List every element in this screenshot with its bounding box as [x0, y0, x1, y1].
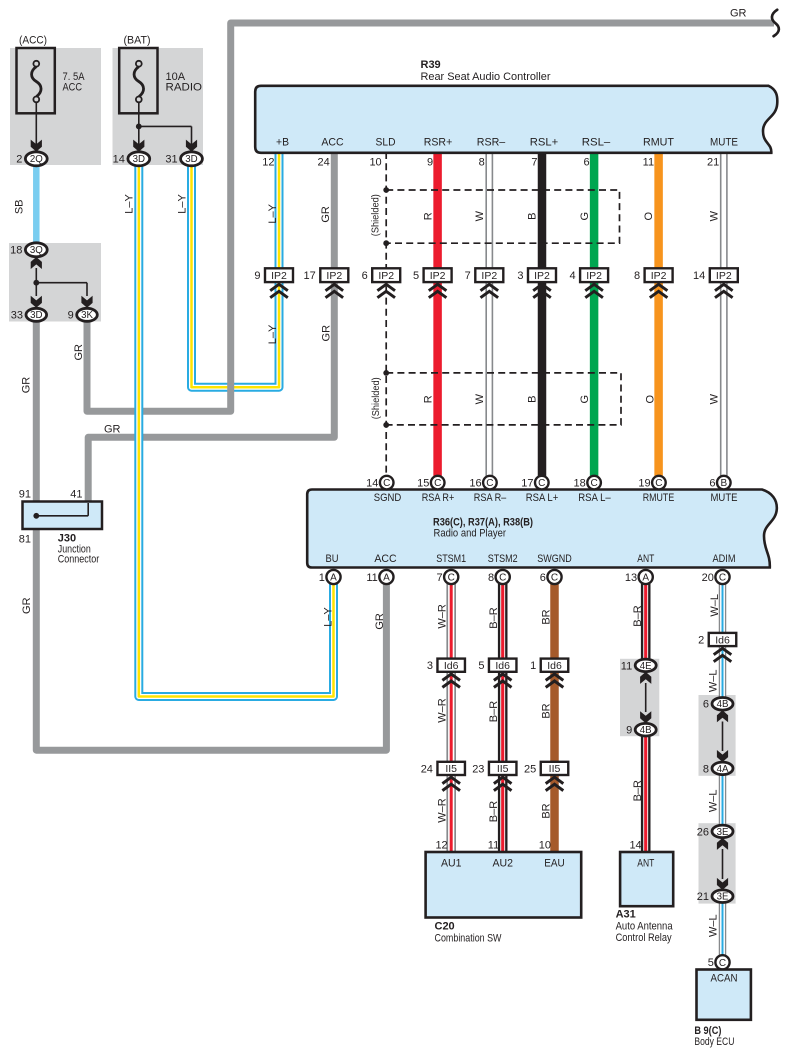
chevron II5 pin 23: [494, 777, 512, 790]
svg-text:C: C: [719, 958, 726, 969]
svg-text:AU2: AU2: [492, 858, 513, 870]
wire fuse ACC tail: [31, 102, 42, 151]
off-page break symbol: [772, 10, 779, 36]
chevron IP2 pin 17: [326, 284, 344, 297]
svg-text:W–L: W–L: [708, 789, 720, 812]
chevron IP2 pin 3: [533, 284, 551, 297]
svg-text:ANT: ANT: [637, 858, 654, 870]
connector block background 4B/4A: [699, 695, 736, 776]
svg-text:21: 21: [697, 891, 709, 903]
svg-text:II5: II5: [497, 763, 509, 775]
svg-text:6: 6: [362, 270, 368, 282]
svg-text:RSA R–: RSA R–: [474, 492, 507, 504]
svg-text:12: 12: [435, 840, 447, 852]
svg-text:STSM1: STSM1: [436, 553, 466, 565]
C20 pin labels: [441, 858, 565, 870]
svg-text:5: 5: [413, 270, 419, 282]
connector IP2 pin 5: [413, 268, 452, 282]
wire W-L ADIM to 4B: [719, 584, 727, 698]
svg-text:W: W: [474, 393, 486, 404]
svg-text:C: C: [590, 478, 597, 489]
connector 3D pin31: [165, 152, 202, 166]
svg-text:3: 3: [427, 660, 433, 672]
svg-text:A: A: [330, 573, 337, 584]
svg-text:RSA L+: RSA L+: [526, 492, 559, 504]
chevron IP2 pin 4: [585, 284, 603, 297]
svg-text:21: 21: [707, 157, 719, 169]
svg-text:C: C: [538, 478, 545, 489]
svg-text:14: 14: [366, 478, 378, 490]
radio bottom pin labels: [326, 553, 736, 565]
svg-text:RMUTE: RMUTE: [643, 492, 675, 504]
svg-text:14: 14: [693, 270, 705, 282]
svg-text:1: 1: [530, 660, 536, 672]
wire L-Y from fuse 3D pin31 to R39 +B: [192, 152, 280, 387]
svg-text:B: B: [527, 213, 539, 220]
wire W MUTE column: [720, 152, 728, 476]
radio pin 15 (C): [417, 476, 444, 490]
svg-text:3D: 3D: [30, 310, 42, 321]
svg-text:6: 6: [583, 157, 589, 169]
wire L-Y from fuse 3D pin14 to radio BU: [139, 166, 334, 697]
wire G RSL- column: [590, 152, 599, 476]
connector block background 3E/3E: [699, 823, 736, 903]
svg-text:A: A: [642, 573, 649, 584]
svg-text:R: R: [423, 395, 435, 403]
IC B9 Body ECU: [697, 970, 751, 1020]
svg-text:11: 11: [643, 157, 654, 169]
radio pin 6 (C) bottom: [540, 570, 562, 584]
svg-text:GR: GR: [104, 423, 121, 435]
svg-text:Rear Seat Audio Controller: Rear Seat Audio Controller: [421, 71, 551, 83]
svg-text:RMUT: RMUT: [643, 137, 674, 149]
svg-text:81: 81: [19, 534, 31, 546]
svg-text:W: W: [708, 210, 720, 221]
svg-text:RSL+: RSL+: [530, 137, 559, 149]
svg-text:12: 12: [262, 157, 274, 169]
svg-text:5: 5: [708, 957, 714, 969]
svg-text:RSR+: RSR+: [424, 137, 453, 149]
svg-text:Id6: Id6: [547, 660, 562, 672]
wire colour labels below IP2: [267, 324, 332, 344]
svg-text:SB: SB: [14, 199, 26, 214]
svg-text:3E: 3E: [717, 827, 729, 838]
label J30 title: [58, 533, 100, 566]
label B9 title: [694, 1025, 734, 1048]
svg-text:EAU: EAU: [544, 858, 565, 870]
connector 3Q: [10, 243, 47, 257]
svg-text:4: 4: [569, 270, 575, 282]
chevron Id6 pin 2: [714, 648, 732, 661]
radio pin 14 (C): [366, 476, 393, 490]
fuse block background (BAT): [113, 48, 204, 165]
chevron II5 pin 25: [546, 777, 564, 790]
junction 3Q to 3D/3K arrows: [31, 257, 93, 308]
chevron IP2 pin 6: [377, 284, 395, 297]
J30 pin numbers: [19, 488, 83, 545]
svg-text:18: 18: [10, 245, 22, 257]
svg-text:B–R: B–R: [488, 607, 500, 628]
svg-text:GR: GR: [21, 597, 33, 614]
wire BR SWGND to C20 EAU: [550, 584, 559, 852]
svg-text:8: 8: [703, 763, 709, 775]
svg-text:W–R: W–R: [436, 604, 448, 629]
connector 3D pin33: [11, 308, 47, 321]
svg-text:L–Y: L–Y: [267, 203, 279, 223]
svg-text:G: G: [579, 395, 591, 404]
svg-text:7: 7: [465, 270, 471, 282]
wire colour labels in shield 2: [423, 393, 721, 404]
svg-text:BU: BU: [326, 553, 339, 565]
wire B-R STSM2 to C20 AU2: [498, 584, 508, 852]
svg-text:ACC: ACC: [321, 137, 343, 149]
chevron IP2 pin 7: [481, 284, 499, 297]
svg-text:14: 14: [113, 154, 125, 166]
svg-text:II5: II5: [549, 763, 561, 775]
svg-text:10: 10: [369, 157, 381, 169]
radio pin 18 (C): [574, 476, 601, 490]
svg-text:20: 20: [702, 572, 714, 584]
wire B RSL+ column: [538, 152, 547, 476]
svg-text:W: W: [709, 393, 721, 404]
wire O RMUT column: [654, 152, 663, 476]
svg-text:B: B: [527, 396, 539, 403]
svg-text:41: 41: [70, 488, 82, 500]
svg-text:ACAN: ACAN: [711, 972, 738, 984]
svg-text:13: 13: [625, 572, 637, 584]
svg-text:Auto Antenna: Auto Antenna: [616, 921, 674, 933]
connector 2Q: [16, 152, 47, 166]
svg-text:SLD: SLD: [376, 137, 396, 149]
connector II5 pin 24: [421, 762, 465, 776]
svg-text:11: 11: [366, 572, 377, 584]
svg-text:SWGND: SWGND: [537, 553, 572, 565]
chevron IP2 pin 5: [429, 284, 447, 297]
wire W-L 4A to 3E: [719, 775, 727, 827]
svg-text:GR: GR: [321, 325, 333, 342]
connector Id6 pin 2 (ADIM): [698, 633, 736, 647]
svg-text:BR: BR: [540, 703, 552, 718]
svg-text:+B: +B: [276, 137, 289, 149]
radio pin 17 (C): [521, 476, 548, 490]
svg-text:ADIM: ADIM: [713, 553, 736, 565]
svg-text:6: 6: [703, 699, 709, 711]
svg-text:Id6: Id6: [495, 660, 510, 672]
svg-text:24: 24: [421, 763, 433, 775]
svg-text:G: G: [579, 212, 591, 221]
connector IP2 pin 7: [465, 268, 504, 282]
svg-text:19: 19: [638, 478, 650, 490]
svg-text:11: 11: [621, 660, 632, 672]
label R39 title: [421, 59, 551, 83]
connector IP2 pin 8: [634, 268, 673, 282]
svg-text:3D: 3D: [185, 154, 197, 165]
svg-text:W: W: [474, 210, 486, 221]
svg-text:4A: 4A: [717, 764, 729, 775]
IC A31 Auto Antenna Control Relay: [620, 852, 673, 906]
svg-text:(Shielded): (Shielded): [370, 377, 382, 419]
svg-text:8: 8: [488, 572, 494, 584]
svg-text:W–R: W–R: [436, 698, 448, 723]
svg-text:IP2: IP2: [586, 270, 602, 282]
label A31 title: [616, 909, 674, 944]
svg-text:IP2: IP2: [716, 270, 732, 282]
connector IP2 pin 6: [362, 268, 401, 282]
IC R36/R37/R38 Radio and Player: [307, 490, 777, 568]
connector 3E pin26: [697, 825, 733, 838]
svg-text:L–Y: L–Y: [176, 194, 188, 214]
R39 pin numbers: [262, 157, 719, 169]
svg-text:17: 17: [521, 478, 533, 490]
svg-text:9: 9: [68, 310, 74, 322]
svg-text:(ACC): (ACC): [19, 35, 47, 47]
connector 3K pin9: [68, 308, 98, 321]
label C20 title: [435, 921, 502, 945]
svg-text:23: 23: [472, 763, 484, 775]
wire colour labels above IP2: [267, 203, 720, 223]
svg-text:8: 8: [479, 157, 485, 169]
svg-text:AU1: AU1: [441, 858, 462, 870]
svg-text:C: C: [655, 478, 662, 489]
fuse 7.5A ACC: [17, 48, 55, 113]
svg-text:17: 17: [304, 270, 316, 282]
shield box 2 (dashed): [383, 370, 621, 428]
wire W RSR- column: [485, 152, 493, 476]
connector IP2 pin 9: [254, 268, 293, 282]
svg-text:C: C: [434, 478, 441, 489]
svg-text:6: 6: [709, 478, 715, 490]
label radio title: [433, 517, 533, 540]
body ECU pin 5 (C): [708, 955, 730, 969]
radio top pin labels: [374, 492, 738, 504]
svg-text:SGND: SGND: [374, 492, 402, 504]
svg-text:ANT: ANT: [637, 553, 654, 565]
double arrow 3E-3E: [717, 838, 728, 890]
svg-text:8: 8: [634, 270, 640, 282]
connector Id6 pin 1: [530, 659, 568, 673]
connector Id6 pin 3: [427, 659, 465, 673]
svg-text:W–L: W–L: [709, 594, 721, 617]
chevron II5 pin 24: [442, 777, 460, 790]
wire R RSR+ column: [433, 152, 442, 476]
connector II5 pin 23: [472, 762, 516, 776]
wire labels above C20: [436, 780, 719, 823]
wire SB from 2Q to 3Q: [33, 166, 40, 244]
svg-text:31: 31: [165, 154, 177, 166]
svg-text:GR: GR: [730, 8, 747, 20]
svg-text:L–Y: L–Y: [124, 194, 136, 214]
radio pin 6 (B): [709, 476, 730, 490]
svg-text:O: O: [643, 211, 655, 220]
radio pin 8 (C) bottom: [488, 570, 510, 584]
svg-text:3K: 3K: [81, 310, 93, 321]
chevron IP2 pin 9: [270, 284, 288, 297]
svg-text:L–Y: L–Y: [267, 324, 279, 344]
svg-text:9: 9: [427, 157, 433, 169]
svg-text:2Q: 2Q: [30, 154, 43, 165]
svg-text:C: C: [448, 573, 455, 584]
radio pin 20 (C) bottom: [702, 570, 730, 584]
shield box 1 (dashed): [383, 187, 619, 246]
connector IP2 pin 17: [304, 268, 349, 282]
svg-text:IP2: IP2: [481, 270, 497, 282]
svg-text:3E: 3E: [717, 892, 729, 903]
C20 pin numbers: [435, 840, 551, 852]
svg-text:C20: C20: [435, 921, 455, 933]
svg-text:R39: R39: [421, 59, 441, 71]
svg-text:3D: 3D: [133, 154, 145, 165]
svg-text:STSM2: STSM2: [488, 553, 518, 565]
connector IP2 pin 4: [569, 268, 608, 282]
svg-text:RSA L–: RSA L–: [578, 492, 611, 504]
svg-text:3: 3: [517, 270, 523, 282]
svg-text:IP2: IP2: [430, 270, 446, 282]
connector 3E pin21: [697, 890, 733, 903]
connector 4E pin11: [621, 659, 656, 672]
svg-text:IP2: IP2: [326, 270, 342, 282]
connector 4A pin8: [703, 762, 733, 775]
svg-text:14: 14: [629, 840, 641, 852]
svg-text:C: C: [486, 478, 493, 489]
svg-text:GR: GR: [374, 613, 386, 630]
radio pin 7 (C) bottom: [436, 570, 458, 584]
IC C20 Combination SW: [426, 852, 582, 918]
svg-text:RSA R+: RSA R+: [422, 492, 455, 504]
svg-text:26: 26: [697, 826, 709, 838]
svg-text:W–R: W–R: [436, 798, 448, 823]
radio pin 19 (C): [638, 476, 665, 490]
svg-text:GR: GR: [73, 344, 85, 361]
double arrow 4B-4A: [717, 710, 728, 762]
wire W-L 3E to body ECU ACAN: [719, 902, 727, 970]
label 10A RADIO: [166, 71, 203, 94]
svg-text:C: C: [551, 573, 558, 584]
svg-text:9: 9: [626, 725, 632, 737]
wire B-R ANT lower segment: [641, 736, 651, 852]
connector II5 pin 25: [524, 762, 568, 776]
svg-text:Combination SW: Combination SW: [435, 933, 502, 945]
radio pin 11 (A) bottom: [366, 570, 393, 584]
svg-text:R: R: [422, 212, 434, 220]
svg-text:A31: A31: [616, 909, 636, 921]
svg-text:(Shielded): (Shielded): [369, 194, 381, 236]
connector block background 4E/4B: [620, 659, 659, 736]
connector 4B pin9: [626, 723, 656, 736]
svg-text:RADIO: RADIO: [166, 82, 203, 94]
svg-text:W–L: W–L: [708, 914, 720, 937]
svg-text:1: 1: [319, 572, 325, 584]
svg-text:W–L: W–L: [708, 669, 720, 692]
connector 3D pin14: [113, 152, 150, 166]
chevron IP2 pin 14: [715, 284, 733, 297]
wire B-R ANT upper segment: [641, 584, 651, 660]
svg-text:IP2: IP2: [651, 270, 667, 282]
svg-text:B–R: B–R: [632, 780, 644, 801]
chevron Id6 pin 5: [494, 674, 512, 687]
svg-text:BR: BR: [540, 609, 552, 624]
connector 4B pin6: [703, 698, 733, 711]
svg-text:7: 7: [436, 572, 442, 584]
radio pin 16 (C): [469, 476, 496, 490]
svg-text:L–Y: L–Y: [323, 607, 335, 627]
svg-text:GR: GR: [21, 377, 33, 394]
svg-text:Id6: Id6: [715, 634, 730, 646]
wire W-R STSM1 to C20 AU1: [446, 584, 456, 852]
svg-text:18: 18: [574, 478, 586, 490]
svg-text:91: 91: [19, 488, 31, 500]
svg-text:6: 6: [540, 572, 546, 584]
R39 pin name labels: [276, 137, 738, 149]
svg-text:B: B: [720, 478, 727, 489]
svg-text:33: 33: [11, 310, 23, 322]
svg-text:25: 25: [524, 763, 536, 775]
svg-text:Control Relay: Control Relay: [616, 932, 672, 944]
chevron Id6 pin 3: [442, 674, 460, 687]
wire labels between Id6 and II5: [436, 669, 719, 722]
svg-text:MUTE: MUTE: [711, 492, 738, 504]
svg-text:Id6: Id6: [444, 660, 459, 672]
svg-text:GR: GR: [320, 206, 332, 223]
wire labels below radio: [436, 594, 720, 629]
IC R39 Rear Seat Audio Controller: [255, 86, 777, 153]
svg-text:11: 11: [488, 840, 499, 852]
svg-text:B–R: B–R: [488, 701, 500, 722]
svg-text:A: A: [383, 573, 390, 584]
svg-text:Connector: Connector: [58, 554, 100, 566]
svg-text:4B: 4B: [717, 699, 729, 710]
connector block background 3Q/3D/3K: [9, 243, 101, 322]
svg-text:24: 24: [318, 157, 330, 169]
svg-text:II5: II5: [445, 763, 457, 775]
label 7.5A ACC: [63, 71, 86, 94]
wire SLD shield drain (dashed): [385, 152, 387, 476]
svg-text:C: C: [719, 573, 726, 584]
svg-text:Radio and Player: Radio and Player: [434, 528, 507, 540]
svg-text:7: 7: [531, 157, 537, 169]
svg-text:4E: 4E: [640, 661, 652, 672]
radio pin 1 (A) bottom: [319, 570, 341, 584]
chevron Id6 pin 1: [546, 674, 564, 687]
svg-text:B–R: B–R: [488, 801, 500, 822]
svg-text:(BAT): (BAT): [124, 35, 151, 47]
svg-text:15: 15: [417, 478, 429, 490]
svg-text:RSR–: RSR–: [477, 137, 506, 149]
junction connector J30: [23, 502, 103, 530]
connector IP2 pin 14: [693, 268, 738, 282]
svg-text:BR: BR: [540, 803, 552, 818]
double arrow 4E-4B: [640, 672, 651, 723]
svg-text:ACC: ACC: [374, 553, 396, 565]
fuse block background (ACC): [10, 48, 101, 165]
chevron IP2 pin 8: [650, 284, 668, 297]
svg-text:16: 16: [469, 478, 481, 490]
svg-text:IP2: IP2: [534, 270, 550, 282]
svg-text:IP2: IP2: [378, 270, 394, 282]
svg-text:2: 2: [16, 154, 22, 166]
svg-text:C: C: [499, 573, 506, 584]
svg-text:9: 9: [254, 270, 260, 282]
radio pin 13 (A) bottom: [625, 570, 653, 584]
svg-text:B–R: B–R: [632, 605, 644, 626]
connector IP2 pin 3: [517, 268, 556, 282]
svg-text:MUTE: MUTE: [710, 137, 738, 149]
svg-text:5: 5: [478, 660, 484, 672]
svg-text:2: 2: [698, 635, 704, 647]
wire fuse RADIO tail with branch: [133, 102, 197, 151]
svg-text:RSL–: RSL–: [582, 137, 611, 149]
svg-text:O: O: [644, 394, 656, 403]
wire GR from R39 ACC to J30 pin41: [88, 152, 334, 503]
